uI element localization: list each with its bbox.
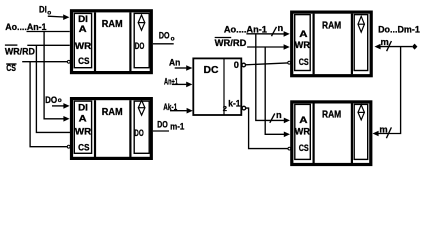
svg-text:CS: CS bbox=[299, 143, 309, 154]
svg-text:A: A bbox=[299, 29, 307, 40]
wire WR branch down to U4.WR with arrow bbox=[265, 47, 284, 134]
U2 output column rect bbox=[134, 101, 149, 153]
wire DOo output stub of U1 bbox=[153, 43, 174, 45]
wire WR/RD to U3.WR with arrow bbox=[247, 46, 284, 48]
svg-text:0: 0 bbox=[234, 60, 239, 70]
svg-text:n: n bbox=[278, 23, 284, 33]
U4 middle divider left bbox=[313, 103, 315, 163]
wire A branch down to U2.A with arrow bbox=[44, 32, 64, 119]
svg-text:A: A bbox=[299, 115, 307, 126]
U1 output column rect bbox=[134, 13, 149, 67]
svg-text:WR/RD: WR/RD bbox=[215, 38, 247, 48]
svg-text:An+1: An+1 bbox=[164, 77, 178, 87]
U2 bidir buffer diamond bbox=[138, 100, 145, 115]
svg-text:DC: DC bbox=[204, 65, 219, 76]
svg-text:RAM: RAM bbox=[102, 19, 123, 30]
wire DOo to U2.DI with arrow bbox=[52, 105, 64, 107]
svg-text:DI: DI bbox=[39, 4, 47, 14]
wire Ak-1 to DC1 with arrow bbox=[170, 110, 187, 112]
U4 output column rect bbox=[354, 104, 368, 159]
svg-text:m-1: m-1 bbox=[170, 122, 184, 132]
svg-text:WR: WR bbox=[295, 40, 310, 51]
svg-text:CS: CS bbox=[299, 57, 309, 68]
U1 input column rect bbox=[74, 13, 91, 67]
svg-text:CS: CS bbox=[78, 56, 90, 67]
svg-text:WR/RD: WR/RD bbox=[5, 47, 35, 57]
wire A branch down to U4.A with arrow bbox=[256, 34, 284, 121]
svg-text:RAM: RAM bbox=[102, 107, 123, 118]
svg-text:DO: DO bbox=[157, 119, 168, 129]
U3 input column rect bbox=[295, 15, 311, 71]
wire CS to U1.CS with bubble bbox=[22, 61, 67, 63]
U4 input column rect bbox=[295, 104, 311, 159]
svg-text:o: o bbox=[58, 97, 62, 104]
U1 middle divider left bbox=[94, 13, 96, 73]
U3 output column rect bbox=[354, 15, 368, 71]
svg-text:DO: DO bbox=[159, 30, 170, 40]
svg-text:A: A bbox=[79, 24, 87, 35]
wire CS branch down to U2.CS with bubble bbox=[30, 62, 67, 147]
wire DO m-1 output stub of U2 bbox=[153, 130, 169, 132]
wire WR/RD to U1.WR bbox=[27, 44, 70, 46]
U4 middle divider right bbox=[351, 103, 353, 163]
wire WR branch down to U2.WR bbox=[36, 45, 70, 132]
RAM block U3 (top-right) outer bbox=[292, 12, 372, 76]
svg-text:WR: WR bbox=[295, 127, 310, 138]
wire address bus to U3.A with arrow bbox=[246, 33, 284, 35]
svg-text:DO: DO bbox=[135, 41, 145, 52]
wire data bus branch down to U4 with arrow bbox=[379, 47, 401, 134]
U3 middle divider right bbox=[351, 14, 353, 75]
svg-text:DI: DI bbox=[78, 103, 88, 114]
RAM block U4 (bottom-right) outer bbox=[292, 102, 371, 165]
svg-text:m: m bbox=[381, 37, 389, 47]
svg-text:WR: WR bbox=[75, 126, 91, 137]
wire An+1 to DC1 with arrow bbox=[172, 83, 186, 85]
wire DIo to U1.DI with arrow bbox=[48, 15, 64, 18]
wire address bus to U1.A bbox=[27, 31, 70, 33]
svg-text:RAM: RAM bbox=[322, 109, 341, 120]
svg-text:o: o bbox=[47, 9, 51, 16]
svg-text:n: n bbox=[276, 110, 282, 120]
U3 bidir buffer diamond bbox=[358, 16, 365, 32]
DC1 output 2^k-1 bubble bbox=[242, 106, 246, 110]
svg-text:An: An bbox=[169, 57, 181, 67]
svg-text:k-1: k-1 bbox=[228, 99, 240, 109]
RAM block U1 (top-left) outer bbox=[72, 11, 152, 73]
U2 middle divider right bbox=[129, 100, 131, 157]
svg-text:WR: WR bbox=[75, 41, 91, 52]
svg-text:2: 2 bbox=[223, 104, 227, 113]
U2 middle divider left bbox=[94, 100, 96, 157]
svg-text:DO: DO bbox=[45, 95, 57, 105]
U4 bidir buffer diamond bbox=[358, 105, 365, 120]
wire DC1 out0 to U3.CS with bubble bbox=[246, 63, 288, 65]
RAM block U2 (bottom-left) outer bbox=[72, 99, 152, 159]
U2 input column rect bbox=[74, 101, 91, 153]
U3 middle divider left bbox=[313, 14, 315, 75]
slash n on U3 address bus bbox=[272, 27, 277, 36]
wire bidirectional data bus of U3 bbox=[379, 46, 413, 48]
wire DC1 out k-1 to U4.CS with bubble bbox=[246, 108, 288, 149]
slash n on U4 address bus bbox=[270, 114, 275, 123]
svg-text:A: A bbox=[79, 113, 87, 124]
svg-text:RAM: RAM bbox=[322, 20, 341, 31]
svg-text:o: o bbox=[171, 36, 175, 43]
decoder DC1 rect bbox=[193, 58, 241, 115]
svg-text:Do...Dm-1: Do...Dm-1 bbox=[378, 25, 420, 35]
svg-text:Ao....An-1: Ao....An-1 bbox=[5, 22, 46, 32]
svg-text:DO: DO bbox=[134, 128, 144, 139]
svg-text:m: m bbox=[379, 125, 387, 135]
DC1 output column divider bbox=[223, 59, 225, 115]
svg-text:CS: CS bbox=[78, 142, 90, 153]
U1 middle divider right bbox=[129, 13, 131, 73]
DC1 output 0 bubble bbox=[242, 63, 246, 67]
U1 bidir buffer diamond bbox=[138, 15, 145, 30]
wire An to DC1 with arrow bbox=[175, 67, 187, 69]
